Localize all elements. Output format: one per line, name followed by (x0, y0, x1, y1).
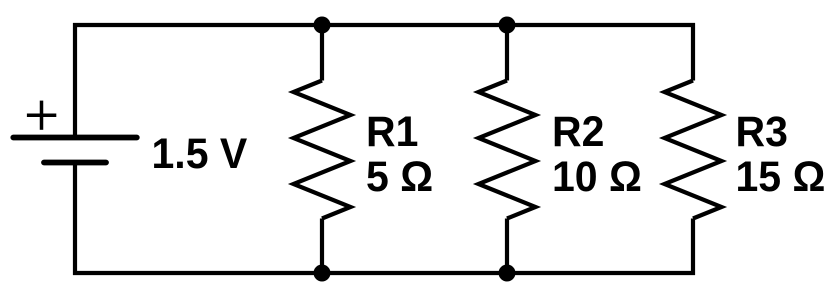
wire R1 bottom lead (320, 219, 324, 274)
node dot top R2 (499, 17, 516, 34)
wire R2 bottom lead (505, 219, 509, 274)
svg-text:5 Ω: 5 Ω (366, 153, 433, 201)
battery V1 short plate (negative) (44, 160, 106, 166)
resistor R2 zigzag (479, 81, 536, 219)
wire bottom (73, 271, 695, 275)
node dot top R1 (314, 17, 331, 34)
wire left bottom (battery - terminal) (73, 162, 77, 275)
wire left top (battery + terminal) (73, 23, 77, 137)
svg-text:10 Ω: 10 Ω (552, 153, 642, 201)
resistor R3 zigzag (665, 81, 722, 219)
wire R1 top lead (320, 25, 324, 81)
node dot bottom R2 (499, 265, 516, 282)
node dot bottom R1 (314, 265, 331, 282)
svg-text:R2: R2 (552, 108, 604, 156)
wire R3 bottom lead (right side) (691, 219, 695, 276)
wire top (73, 23, 695, 27)
svg-text:R3: R3 (736, 108, 788, 156)
wire R3 top lead (right side) (691, 23, 695, 81)
battery V1 long plate (positive) (13, 135, 137, 141)
svg-text:15 Ω: 15 Ω (736, 153, 826, 201)
resistor R1 zigzag (294, 81, 351, 219)
battery V1 plus sign (27, 101, 56, 130)
wire R2 top lead (505, 25, 509, 81)
svg-text:1.5 V: 1.5 V (152, 130, 248, 178)
svg-text:R1: R1 (366, 108, 418, 156)
